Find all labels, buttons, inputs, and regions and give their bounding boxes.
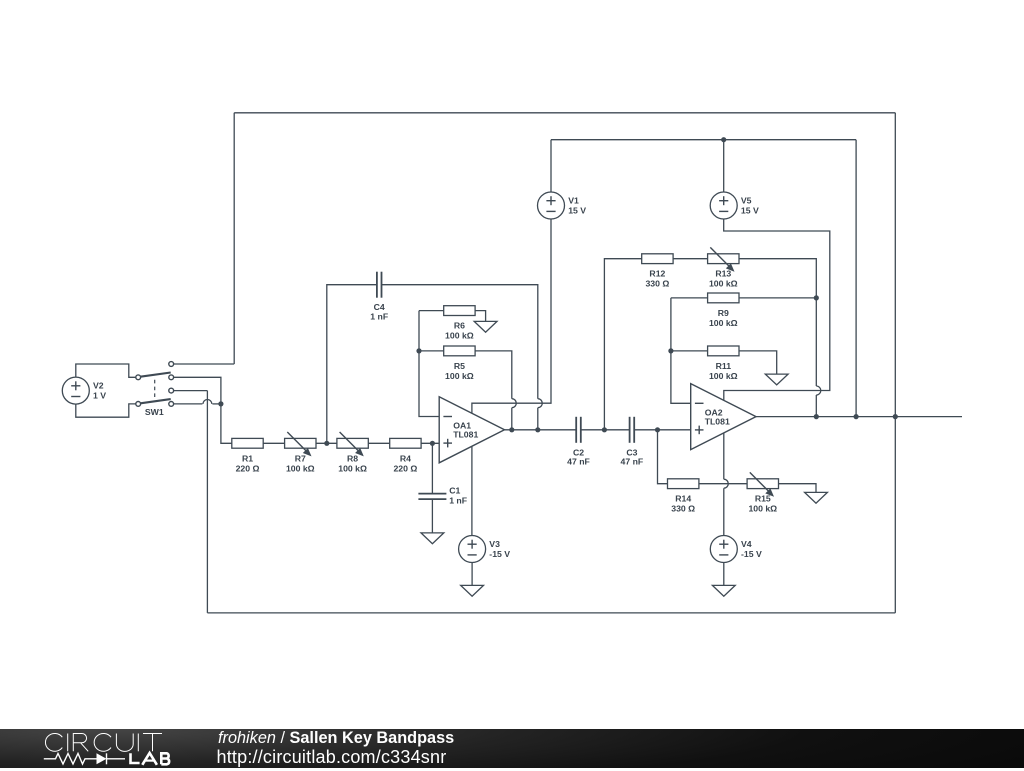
- wire R1-R7: [263, 442, 284, 444]
- wire hop: [203, 399, 212, 403]
- svg-text:SW1: SW1: [145, 407, 164, 417]
- wire R14 branch: [658, 430, 668, 484]
- resistor R14: [668, 479, 699, 489]
- wire SW1 bottom throw (left of hop): [174, 403, 203, 405]
- wire hop: [724, 479, 729, 488]
- svg-text:R14: R14: [675, 494, 691, 504]
- capacitor C3: [630, 417, 635, 443]
- svg-text:R4: R4: [400, 453, 411, 463]
- svg-text:15 V: 15 V: [741, 206, 759, 216]
- svg-text:V1: V1: [568, 196, 579, 206]
- wire R13 right down to output: [739, 259, 816, 417]
- wire R9 right: [739, 297, 816, 299]
- junction: [602, 427, 607, 432]
- svg-text:R12: R12: [649, 269, 665, 279]
- wire rail down to output: [855, 140, 857, 417]
- svg-text:1 nF: 1 nF: [449, 496, 467, 506]
- resistor R13: [708, 247, 739, 271]
- svg-text:V2: V2: [93, 381, 104, 391]
- svg-text:220 Ω: 220 Ω: [236, 463, 260, 473]
- ground (V3): [461, 585, 484, 596]
- ground (V4): [712, 585, 735, 596]
- wire C2 to C3: [581, 429, 630, 431]
- junction: [814, 295, 819, 300]
- resistor R7: [285, 432, 316, 456]
- junction: [509, 427, 514, 432]
- junction: [430, 441, 435, 446]
- wire R4 to OA1 +: [421, 442, 439, 444]
- junction: [721, 137, 726, 142]
- resistor R5: [444, 346, 475, 356]
- svg-text:100 kΩ: 100 kΩ: [286, 463, 315, 473]
- net loop: top rail: [234, 112, 895, 114]
- junction: [324, 441, 329, 446]
- voltage source V5: [710, 192, 737, 219]
- wire OA1 V- pin to V3: [471, 446, 473, 535]
- wire R8-R4: [368, 442, 389, 444]
- wire V1 top stub: [550, 140, 552, 192]
- svg-text:100 kΩ: 100 kΩ: [748, 504, 777, 514]
- net loop: right vertical: [894, 113, 896, 613]
- wire C4 right to OA1 output: [382, 285, 538, 430]
- svg-text:R11: R11: [716, 361, 732, 371]
- resistor R11: [708, 346, 739, 356]
- wire hop: [538, 399, 543, 408]
- V2 top loop wire: [76, 364, 136, 377]
- wire node up to R12: [604, 259, 641, 430]
- resistor R9: [708, 293, 739, 303]
- svg-text:15 V: 15 V: [568, 206, 586, 216]
- wire OA2 output: [756, 416, 962, 418]
- wire C1 bottom to ground: [431, 499, 433, 533]
- switch SW1 (DPDT): [136, 362, 174, 407]
- svg-text:TL081: TL081: [453, 430, 478, 440]
- net loop: bottom rail: [207, 612, 895, 614]
- wire SW1 throw to R1: [174, 377, 232, 443]
- svg-text:TL081: TL081: [705, 416, 730, 426]
- net loop: left vertical: [206, 391, 208, 613]
- junction: [655, 427, 660, 432]
- wire to OA1 - input: [419, 311, 439, 417]
- wire R9 left: [671, 297, 708, 299]
- junction: [854, 414, 859, 419]
- wire R14-R15: [699, 483, 747, 485]
- wire up to top rail: [233, 113, 235, 364]
- logo resistor-diode symbol: [44, 753, 125, 764]
- wire R11 left: [671, 350, 708, 352]
- svg-text:V5: V5: [741, 196, 752, 206]
- svg-text:R13: R13: [715, 269, 731, 279]
- svg-text:100 kΩ: 100 kΩ: [445, 371, 474, 381]
- wire C3 to OA2 +: [634, 429, 691, 431]
- wire to SW1 middle throw: [174, 390, 208, 392]
- svg-text:1 V: 1 V: [93, 391, 106, 401]
- resistor R6: [444, 306, 475, 316]
- wire OA2 - input: [671, 298, 691, 403]
- svg-text:1 nF: 1 nF: [370, 311, 388, 321]
- wire V4 to ground: [723, 562, 725, 585]
- svg-text:220 Ω: 220 Ω: [393, 463, 417, 473]
- capacitor C1: [418, 494, 446, 500]
- resistor R8: [337, 432, 368, 456]
- wire hop: [816, 386, 821, 395]
- junction: [893, 414, 898, 419]
- op-amp OA1: [439, 397, 504, 463]
- svg-text:100 kΩ: 100 kΩ: [709, 371, 738, 381]
- wire R5 right to OA1 output: [475, 351, 512, 430]
- wire hop: [512, 399, 517, 408]
- capacitor C4: [377, 272, 382, 298]
- wire R15 right to ground: [779, 484, 817, 493]
- resistor R12: [642, 254, 673, 264]
- voltage source V1: [538, 192, 565, 219]
- V2 bottom loop wire: [76, 404, 136, 417]
- svg-text:R7: R7: [295, 453, 306, 463]
- wire C4 left branch: [327, 285, 377, 444]
- svg-text:100 kΩ: 100 kΩ: [445, 331, 474, 341]
- wire R11 right to ground: [739, 351, 777, 374]
- junction: [535, 427, 540, 432]
- wire OA1 V+ pin to V1: [472, 219, 551, 413]
- svg-text:V4: V4: [741, 539, 752, 549]
- svg-text:R5: R5: [454, 361, 465, 371]
- resistor R1: [232, 438, 263, 448]
- svg-text:47 nF: 47 nF: [567, 457, 590, 467]
- junction: [416, 348, 421, 353]
- wire R6 left: [419, 310, 444, 312]
- svg-text:R8: R8: [347, 453, 358, 463]
- capacitor C2: [576, 417, 581, 443]
- wire V5 top stub: [723, 140, 725, 192]
- footer bar: [0, 729, 1024, 768]
- wire R12-R13: [673, 258, 708, 260]
- svg-text:-15 V: -15 V: [489, 549, 510, 559]
- wire R7-R8: [316, 442, 337, 444]
- svg-text:R6: R6: [454, 321, 465, 331]
- ground (R6): [474, 321, 497, 332]
- ground (R15): [805, 492, 828, 503]
- svg-text:330 Ω: 330 Ω: [645, 279, 669, 289]
- CircuitLab logo: [39, 726, 239, 771]
- svg-text:R15: R15: [755, 494, 771, 504]
- wire V3 to ground: [471, 562, 473, 585]
- svg-text:R9: R9: [718, 308, 729, 318]
- svg-text:100 kΩ: 100 kΩ: [338, 463, 367, 473]
- net rail V1-V5: [551, 139, 856, 141]
- wire OA2 V+ pin to V5: [724, 219, 830, 400]
- wire from SW1 top throw: [174, 363, 235, 365]
- ground (C1): [421, 533, 444, 544]
- svg-text:330 Ω: 330 Ω: [671, 504, 695, 514]
- CircuitLab logo word CIRCUIT: [45, 734, 162, 752]
- wire R6 right to ground: [475, 311, 486, 322]
- svg-text:C1: C1: [449, 486, 460, 496]
- svg-text:V3: V3: [489, 539, 500, 549]
- wire R5 left: [419, 350, 444, 352]
- svg-text:R1: R1: [242, 453, 253, 463]
- resistor R15: [747, 472, 778, 496]
- wire to C1 top: [431, 443, 433, 493]
- svg-text:-15 V: -15 V: [741, 549, 762, 559]
- op-amp OA2: [691, 384, 756, 450]
- resistor R4: [390, 438, 421, 448]
- junction: [218, 401, 223, 406]
- wire SW1 bottom throw (right of hop): [212, 403, 221, 405]
- voltage source V2: [62, 377, 89, 404]
- footer titles: [218, 729, 454, 767]
- ground (R11): [765, 374, 788, 385]
- wire OA2 V- pin to V4: [723, 433, 725, 536]
- svg-text:100 kΩ: 100 kΩ: [709, 279, 738, 289]
- voltage source V4: [710, 536, 737, 563]
- svg-text:100 kΩ: 100 kΩ: [709, 318, 738, 328]
- wire OA1 output to C2: [505, 429, 577, 431]
- svg-text:47 nF: 47 nF: [621, 457, 644, 467]
- junction: [814, 414, 819, 419]
- junction: [668, 348, 673, 353]
- logo word LAB: [131, 753, 170, 765]
- voltage source V3: [459, 536, 486, 563]
